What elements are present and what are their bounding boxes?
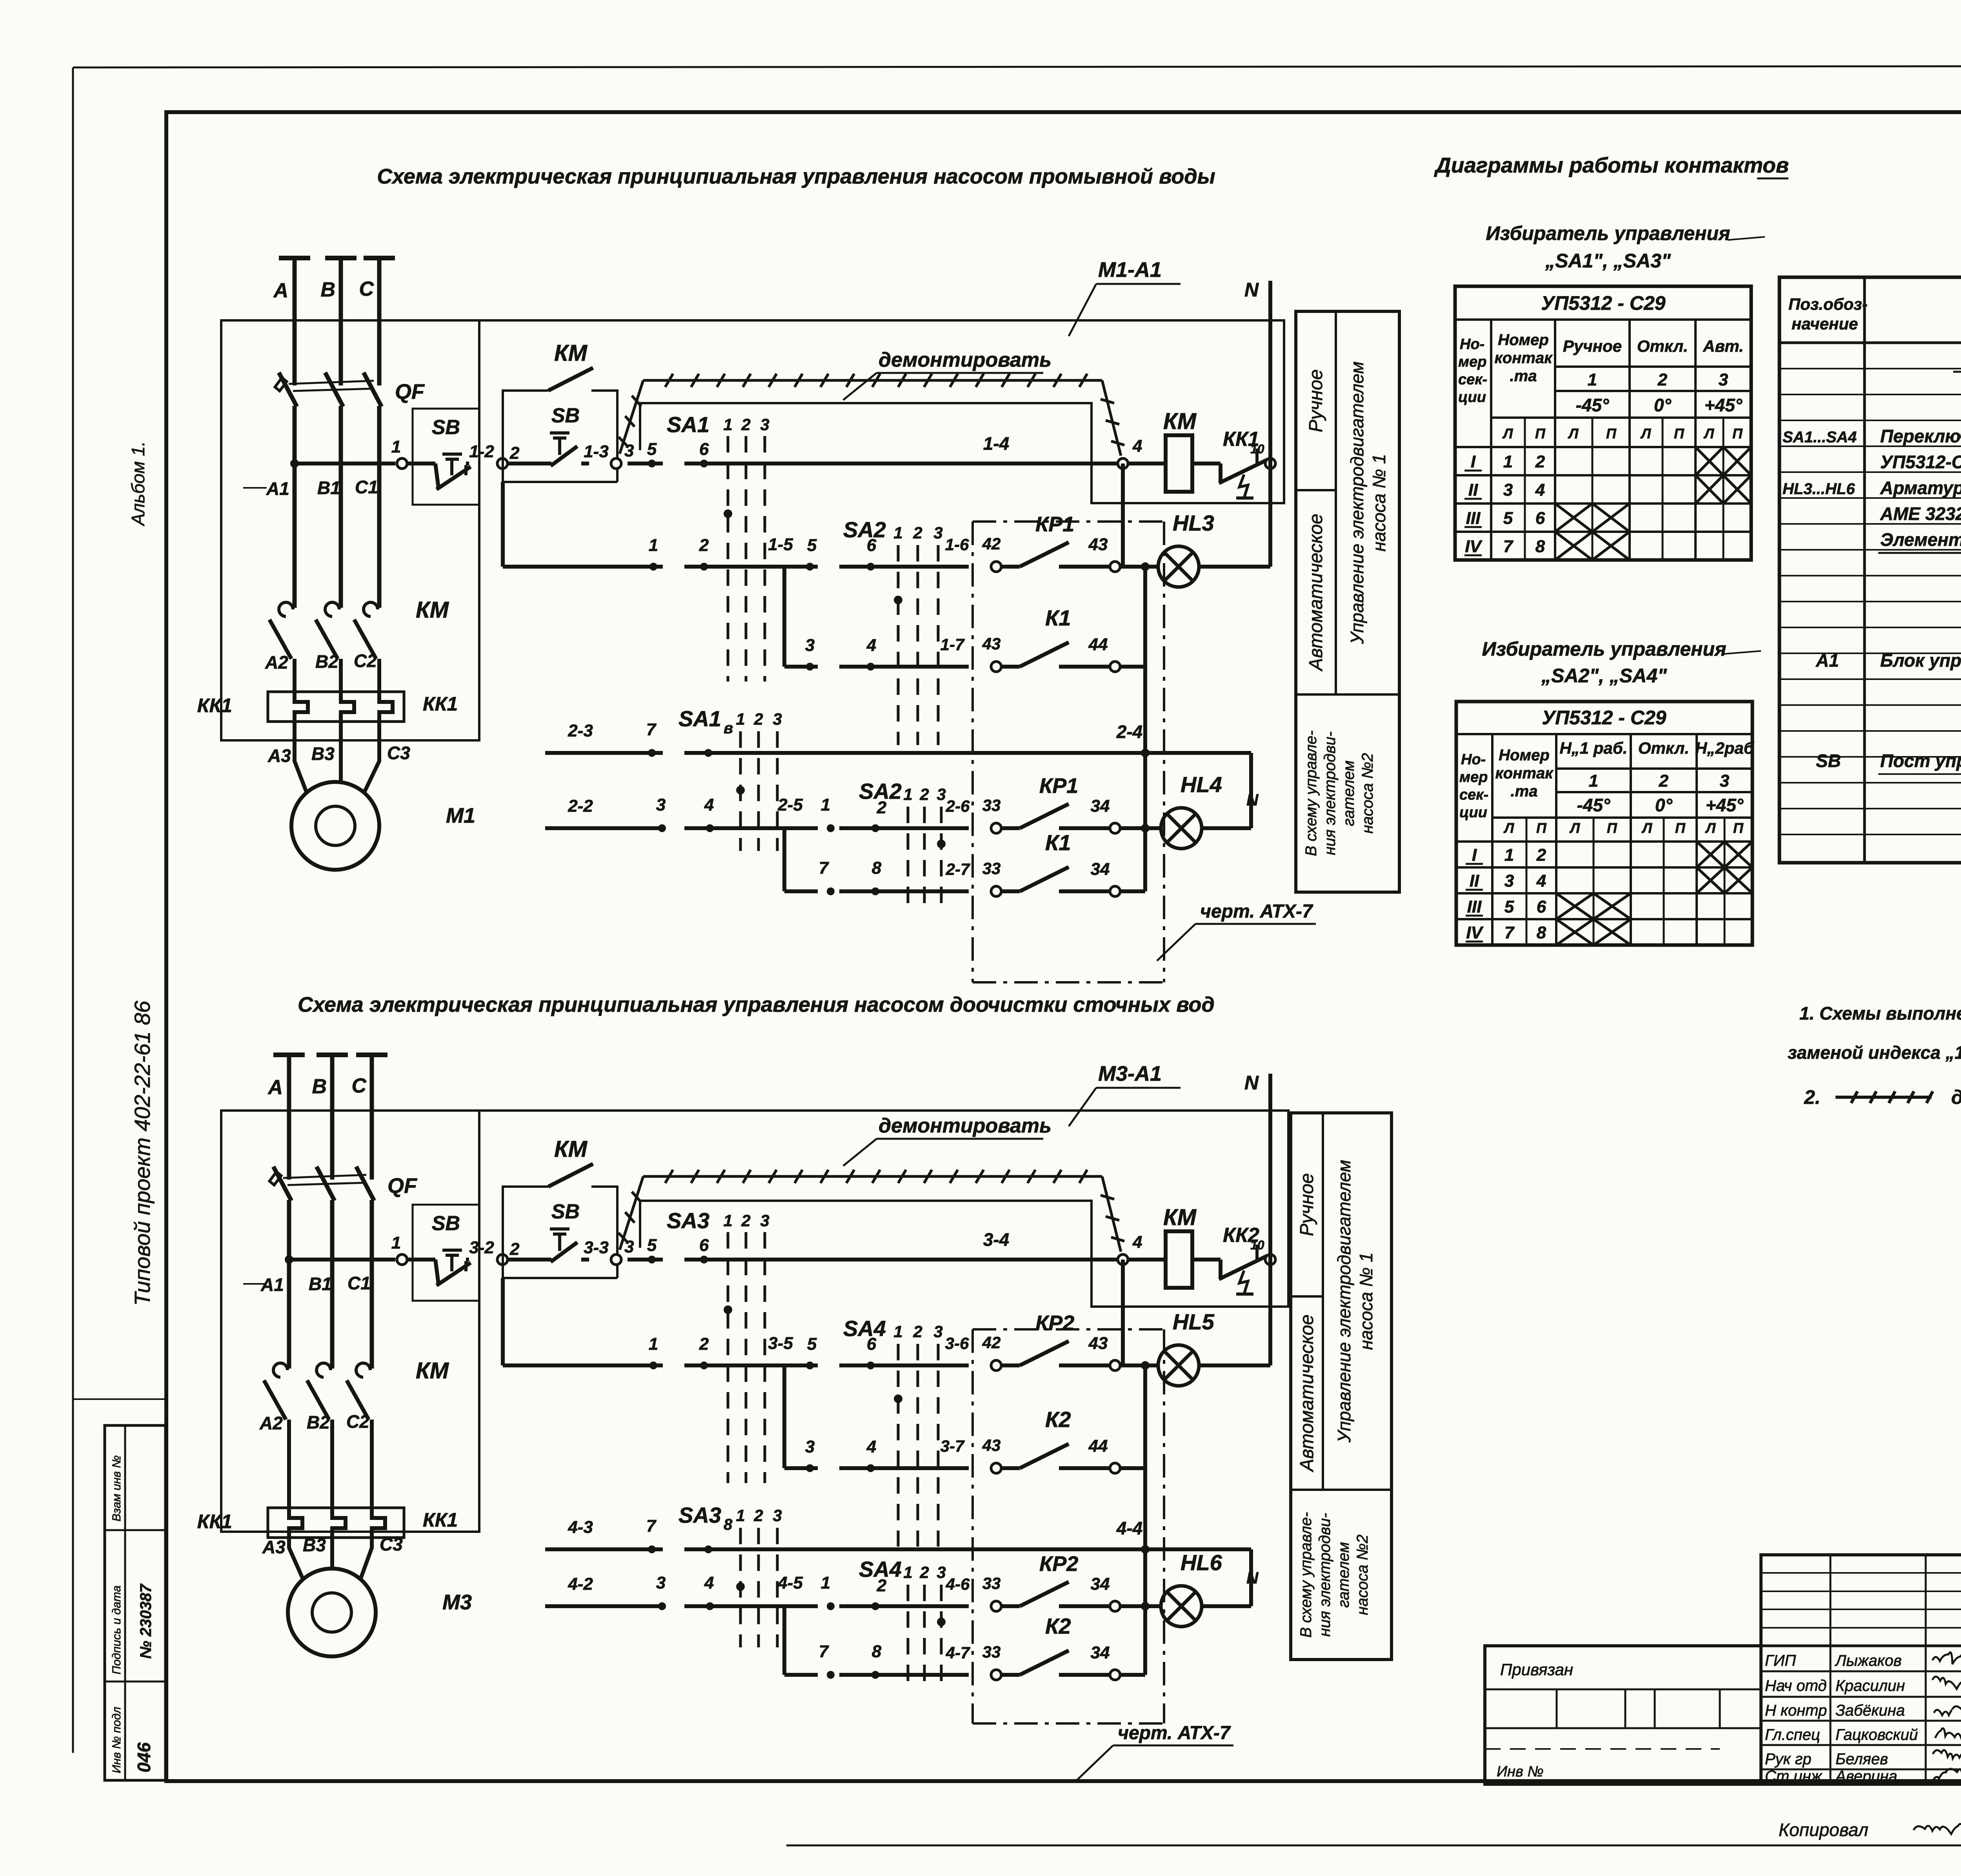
svg-text:3: 3 (1720, 771, 1729, 791)
control circuit row 1 wire (285, 1255, 293, 1264)
svg-text:насоса № 1: насоса № 1 (1356, 1252, 1376, 1350)
svg-text:С2: С2 (354, 651, 377, 671)
svg-text:А: А (267, 1076, 283, 1099)
svg-text:5: 5 (1503, 509, 1513, 528)
svg-text:3: 3 (773, 710, 782, 728)
svg-text:3: 3 (1503, 480, 1513, 500)
thermal relay contact КК1 (1192, 462, 1221, 465)
svg-text:HL3...HL6: HL3...HL6 (1783, 480, 1855, 498)
svg-text:Ручное: Ручное (1563, 337, 1622, 355)
svg-text:SB: SB (432, 416, 460, 439)
svg-text:Красилин: Красилин (1835, 1677, 1905, 1694)
svg-text:К2: К2 (1045, 1407, 1071, 1432)
svg-text:43: 43 (1088, 1334, 1108, 1353)
svg-text:1-5: 1-5 (768, 535, 793, 554)
svg-text:Номер: Номер (1499, 747, 1550, 764)
svg-text:2-5: 2-5 (777, 795, 803, 814)
svg-text:1: 1 (1504, 845, 1514, 865)
svg-text:3: 3 (656, 795, 666, 814)
svg-text:43: 43 (982, 1436, 1001, 1454)
svg-text:М3-А1: М3-А1 (1098, 1062, 1162, 1085)
relay contact К1 (row 3) (991, 662, 1001, 672)
svg-text:„SA1", „SA3": „SA1", „SA3" (1545, 250, 1671, 272)
svg-text:С: С (359, 278, 374, 300)
svg-text:Номер: Номер (1498, 331, 1549, 349)
svg-text:Переключатель универсальный: Переключатель универсальный (1880, 426, 1961, 446)
svg-text:HL3: HL3 (1173, 511, 1214, 535)
svg-text:+45°: +45° (1706, 795, 1744, 815)
svg-text:SB: SB (432, 1212, 460, 1235)
svg-text:Схема электрическая принципиал: Схема электрическая принципиальная управ… (377, 165, 1215, 188)
svg-text:3: 3 (937, 1563, 946, 1582)
svg-text:8: 8 (1535, 537, 1545, 556)
row 5: relay KP contact row with signal lamp (545, 1604, 663, 1608)
svg-text:2: 2 (1657, 370, 1668, 389)
svg-text:34: 34 (1091, 1574, 1110, 1594)
svg-text:8: 8 (872, 1642, 882, 1661)
svg-text:1: 1 (893, 1322, 902, 1341)
svg-text:насоса № 1: насоса № 1 (1369, 454, 1389, 551)
svg-text:Избиратель управления: Избиратель управления (1482, 638, 1726, 660)
svg-text:0°: 0° (1655, 795, 1673, 815)
svg-text:10: 10 (1250, 442, 1264, 456)
control panel enclosure box (221, 1111, 479, 1532)
svg-text:черт. АТХ-7: черт. АТХ-7 (1200, 901, 1313, 922)
svg-text:44: 44 (1088, 635, 1108, 654)
svg-text:4: 4 (704, 1573, 714, 1592)
chart boundary dash-dot box (черт. АТХ-7) (971, 522, 974, 982)
svg-text:8: 8 (1537, 923, 1546, 942)
svg-text:3-6: 3-6 (945, 1334, 969, 1352)
svg-text:6: 6 (1537, 897, 1546, 916)
svg-text:7: 7 (646, 1516, 657, 1536)
svg-text:43: 43 (1088, 535, 1108, 554)
svg-text:мер: мер (1458, 354, 1486, 370)
svg-text:мер: мер (1459, 769, 1488, 785)
svg-text:2: 2 (1535, 452, 1545, 471)
svg-text:М3: М3 (442, 1591, 472, 1614)
svg-text:Беляев: Беляев (1835, 1751, 1888, 1768)
svg-text:КМ: КМ (554, 340, 588, 366)
motor М1 (291, 782, 379, 870)
svg-text:5: 5 (1504, 897, 1514, 916)
svg-text:КР1: КР1 (1039, 774, 1078, 798)
relay contact КР1 (row 2) (991, 562, 1001, 572)
svg-text:Взам инв №: Взам инв № (110, 1455, 123, 1522)
svg-text:2: 2 (753, 1506, 763, 1525)
svg-text:3-3: 3-3 (584, 1238, 609, 1257)
svg-text:КМ: КМ (1163, 409, 1197, 434)
svg-text:II: II (1468, 480, 1478, 500)
svg-text:П: П (1732, 425, 1743, 442)
svg-text:1: 1 (736, 710, 745, 728)
svg-text:1. Схемы выполнены для насосо: 1. Схемы выполнены для насосов № 1 , для… (1799, 1003, 1961, 1023)
svg-text:В: В (312, 1075, 327, 1098)
svg-text:34: 34 (1091, 1643, 1110, 1662)
svg-text:Типовой проект 402-22-61 86: Типовой проект 402-22-61 86 (130, 1000, 155, 1306)
svg-text:4: 4 (704, 795, 714, 814)
svg-text:II: II (1470, 871, 1479, 891)
svg-text:„SA2", „SA4": „SA2", „SA4" (1541, 665, 1667, 687)
right-hand mode/destination label boxes (1291, 1113, 1392, 1660)
svg-text:КМ: КМ (416, 597, 449, 623)
svg-text:П: П (1536, 820, 1547, 836)
svg-text:SA1: SA1 (667, 412, 709, 437)
svg-text:1-3: 1-3 (584, 442, 609, 461)
svg-text:0°: 0° (1654, 395, 1672, 415)
svg-text:Н контр: Н контр (1765, 1702, 1827, 1719)
svg-text:Авт.: Авт. (1703, 337, 1744, 355)
svg-text:В1: В1 (317, 478, 340, 498)
row 4 wire (to pump 2 control) (545, 751, 663, 755)
svg-text:5: 5 (647, 1236, 657, 1255)
signature rows (1761, 1671, 1961, 1672)
svg-text:7: 7 (819, 1642, 830, 1661)
svg-text:3-5: 3-5 (768, 1334, 793, 1353)
svg-text:контак: контак (1495, 765, 1554, 782)
svg-text:В: В (320, 278, 335, 301)
svg-text:В2: В2 (307, 1412, 330, 1432)
terminal circle 1 (397, 458, 407, 469)
svg-text:С: С (351, 1074, 367, 1097)
svg-text:N: N (1244, 1072, 1259, 1094)
svg-text:ГИП: ГИП (1765, 1652, 1796, 1669)
svg-text:2: 2 (741, 1211, 750, 1230)
svg-text:1: 1 (1503, 452, 1513, 471)
thermal relay contact КК2 (1192, 1258, 1221, 1262)
svg-text:SA1...SA4: SA1...SA4 (1783, 429, 1857, 446)
terminal circle 1 (397, 1254, 407, 1265)
svg-text:43: 43 (982, 634, 1001, 653)
svg-text:В2: В2 (315, 651, 338, 672)
svg-text:7: 7 (819, 858, 830, 878)
row 6: relay K contact row (784, 1673, 818, 1677)
svg-text:1: 1 (736, 1506, 745, 1525)
svg-text:2: 2 (753, 710, 763, 728)
svg-text:HL6: HL6 (1181, 1550, 1222, 1575)
svg-text:Но-: Но- (1460, 336, 1484, 353)
svg-text:В1: В1 (309, 1274, 332, 1294)
svg-text:33: 33 (982, 1643, 1001, 1661)
svg-text:2: 2 (919, 1563, 929, 1582)
svg-text:Ручное: Ручное (1297, 1173, 1317, 1236)
thermal relay KK1 heaters (268, 1508, 404, 1538)
svg-text:Элементы управления электродви: Элементы управления электродвигателями (1880, 529, 1961, 550)
svg-text:3: 3 (805, 636, 815, 655)
terminal circle 4 (1118, 1254, 1128, 1265)
row 6: relay K contact row (784, 889, 818, 893)
svg-text:3: 3 (760, 415, 769, 434)
svg-text:4-2: 4-2 (568, 1574, 593, 1594)
terminal circle 2 (497, 1254, 508, 1265)
svg-text:КР1: КР1 (1035, 513, 1074, 536)
svg-text:Автоматическое: Автоматическое (1306, 514, 1326, 672)
svg-text:SA1: SA1 (679, 706, 721, 731)
svg-text:4-6: 4-6 (946, 1575, 970, 1593)
svg-text:Ручное: Ручное (1306, 369, 1326, 433)
svg-text:-45°: -45° (1577, 795, 1610, 815)
relay contact К2 (row 3) (991, 1463, 1001, 1473)
switch diagram table SA2 (1456, 702, 1752, 945)
motor М3 (288, 1569, 376, 1656)
svg-text:1-4: 1-4 (983, 433, 1009, 454)
svg-text:контак: контак (1495, 349, 1553, 367)
svg-text:Л: Л (1703, 425, 1715, 442)
svg-text:1: 1 (649, 536, 658, 555)
svg-text:SA2: SA2 (859, 779, 902, 803)
contactor coil KM (1128, 1258, 1166, 1262)
svg-text:А3: А3 (262, 1537, 286, 1557)
svg-text:4: 4 (866, 1437, 876, 1456)
row 5: relay KP contact row with signal lamp (545, 826, 663, 830)
svg-text:начение: начение (1792, 314, 1858, 333)
svg-text:34: 34 (1091, 796, 1110, 816)
svg-text:3-4: 3-4 (983, 1229, 1009, 1250)
svg-text:046: 046 (134, 1742, 154, 1772)
svg-text:В3: В3 (311, 743, 335, 764)
svg-text:44: 44 (1088, 1436, 1108, 1456)
svg-text:В схему управле-: В схему управле- (1302, 731, 1320, 856)
svg-text:1: 1 (723, 415, 732, 434)
svg-text:3: 3 (760, 1211, 769, 1230)
row 4 wire (to pump 2 control) (545, 1547, 663, 1551)
svg-text:42: 42 (982, 534, 1001, 553)
svg-text:IV: IV (1466, 923, 1484, 942)
svg-text:УП5312 - С29: УП5312 - С29 (1541, 292, 1665, 314)
svg-text:Н„1 раб.: Н„1 раб. (1559, 739, 1627, 757)
terminal circle 10 on N bus (1265, 458, 1275, 469)
svg-text:Копировал: Копировал (1779, 1820, 1868, 1840)
svg-text:IV: IV (1465, 537, 1483, 556)
svg-text:1: 1 (649, 1334, 658, 1354)
junction vertical from terminal 4 down to lower rows (1121, 1260, 1125, 1365)
bottom-left GOST margin table (105, 1425, 166, 1780)
parts list table (Перечень элементов) (1779, 277, 1961, 863)
svg-text:10: 10 (1250, 1238, 1264, 1252)
terminal circle 10 on N bus (1265, 1254, 1275, 1265)
svg-text:3-2: 3-2 (469, 1238, 494, 1257)
svg-text:SB: SB (551, 1200, 580, 1223)
svg-text:К1: К1 (1045, 605, 1071, 630)
svg-text:SA2: SA2 (843, 517, 886, 542)
svg-text:КК1: КК1 (197, 1511, 232, 1532)
svg-text:А2: А2 (265, 652, 288, 673)
terminal circle 3 (611, 1254, 621, 1265)
svg-text:2: 2 (919, 785, 929, 803)
svg-text:1: 1 (821, 1573, 830, 1592)
svg-text:черт. АТХ-7: черт. АТХ-7 (1118, 1723, 1231, 1743)
svg-text:А1: А1 (1815, 650, 1839, 671)
switch diagram table SA1 (1455, 286, 1751, 560)
svg-text:ния электродви-: ния электродви- (1316, 1513, 1333, 1637)
svg-text:№ 230387: № 230387 (137, 1583, 155, 1659)
svg-text:В схему управле-: В схему управле- (1297, 1512, 1315, 1638)
svg-text:1: 1 (903, 1563, 912, 1582)
svg-text:ния электродви-: ния электродви- (1321, 731, 1339, 855)
svg-text:33: 33 (982, 1574, 1001, 1592)
svg-text:С3: С3 (380, 1534, 403, 1554)
svg-text:Забёкина: Забёкина (1835, 1702, 1905, 1719)
signal lamp HL3 (1120, 565, 1158, 569)
svg-text:4-3: 4-3 (568, 1518, 593, 1537)
svg-text:2: 2 (913, 1322, 922, 1341)
svg-text:HL4: HL4 (1181, 772, 1222, 797)
auxiliary contact KM with pushbutton SB (start) (503, 391, 548, 482)
svg-text:2-6: 2-6 (946, 797, 970, 815)
svg-text:КР2: КР2 (1039, 1552, 1078, 1576)
svg-text:Альбом 1.: Альбом 1. (128, 441, 148, 527)
svg-text:1: 1 (903, 785, 912, 803)
terminal circle 2 (497, 458, 508, 469)
svg-text:Ст инж: Ст инж (1765, 1768, 1823, 1785)
fold tick mark left margin (73, 1398, 166, 1400)
svg-text:-45°: -45° (1576, 395, 1609, 415)
control row 3: relay K contact row (784, 665, 818, 669)
svg-text:Л: Л (1502, 425, 1513, 442)
terminal circle 4 (1118, 458, 1128, 469)
svg-text:Пост управления кнопочный: Пост управления кнопочный (1880, 751, 1961, 771)
svg-text:.та: .та (1510, 367, 1537, 385)
svg-text:33: 33 (982, 859, 1001, 878)
thermal relay KK1 heaters (268, 692, 404, 722)
svg-text:4-4: 4-4 (1116, 1518, 1142, 1538)
svg-text:.та: .та (1511, 783, 1538, 800)
svg-text:2: 2 (699, 536, 709, 555)
svg-text:П: П (1674, 425, 1684, 442)
svg-text:Подпись и дата: Подпись и дата (110, 1585, 123, 1674)
svg-text:III: III (1467, 897, 1482, 916)
svg-text:QF: QF (395, 380, 425, 404)
svg-text:QF: QF (387, 1174, 418, 1198)
svg-text:Лыжаков: Лыжаков (1834, 1652, 1902, 1669)
svg-text:I: I (1471, 452, 1476, 471)
svg-text:КК1: КК1 (423, 693, 458, 715)
svg-text:К1: К1 (1045, 830, 1071, 855)
svg-text:4-5: 4-5 (777, 1573, 803, 1592)
svg-text:сек-: сек- (1458, 371, 1487, 388)
block A1 outline (M1-A1) (479, 320, 1284, 503)
svg-text:3: 3 (1719, 370, 1728, 389)
svg-text:Аверина: Аверина (1835, 1768, 1897, 1785)
svg-text:С1: С1 (355, 477, 378, 497)
svg-text:Л: Л (1569, 820, 1581, 836)
svg-text:5: 5 (807, 1334, 817, 1354)
svg-text:2.: 2. (1804, 1086, 1821, 1108)
svg-text:N: N (1244, 279, 1259, 301)
svg-text:4: 4 (1536, 871, 1546, 891)
control row 3: relay K contact row (784, 1466, 818, 1470)
svg-text:3: 3 (933, 524, 942, 542)
svg-text:4: 4 (1132, 436, 1142, 456)
svg-text:Откл.: Откл. (1638, 739, 1689, 757)
svg-text:демонтировать: демонтировать (879, 1114, 1051, 1137)
svg-text:III: III (1466, 509, 1481, 528)
svg-text:6: 6 (699, 440, 709, 459)
svg-text:2: 2 (699, 1334, 709, 1354)
svg-text:I: I (1472, 845, 1477, 865)
svg-text:Л: Л (1640, 425, 1652, 442)
svg-text:Привязан: Привязан (1500, 1660, 1573, 1679)
three-phase supply lines A B C (279, 256, 310, 260)
svg-text:С1: С1 (347, 1273, 371, 1293)
neutral bus N (1268, 1074, 1272, 1365)
svg-text:заменой индекса „1 ” и „3 ”: заменой индекса „1 ” и „3 ” в маркировке… (1788, 1042, 1961, 1063)
svg-text:Диаграммы работы контактов: Диаграммы работы контактов (1434, 153, 1789, 177)
svg-text:Н„2раб: Н„2раб (1695, 739, 1754, 757)
right-hand mode/destination label boxes (1296, 311, 1399, 892)
svg-text:Нач отд: Нач отд (1765, 1677, 1827, 1694)
svg-text:С3: С3 (387, 743, 410, 763)
junction vertical from terminal 4 down to lower rows (1121, 464, 1125, 567)
svg-text:Автоматическое: Автоматическое (1297, 1314, 1317, 1472)
svg-text:7: 7 (1504, 923, 1515, 942)
svg-text:3: 3 (773, 1506, 782, 1525)
svg-text:42: 42 (982, 1333, 1001, 1352)
svg-text:Инв №: Инв № (1497, 1763, 1544, 1780)
control panel enclosure box (221, 320, 479, 740)
svg-text:3: 3 (937, 785, 946, 803)
svg-text:Но-: Но- (1461, 751, 1486, 768)
svg-text:КМ: КМ (1163, 1205, 1197, 1230)
svg-text:3: 3 (656, 1573, 666, 1592)
svg-text:насоса №2: насоса №2 (1354, 1534, 1371, 1615)
svg-text:7: 7 (1503, 537, 1514, 556)
svg-text:2-7: 2-7 (946, 860, 970, 878)
svg-text:8: 8 (724, 1516, 733, 1533)
circuit breaker QF (273, 1167, 291, 1201)
svg-text:1: 1 (391, 437, 401, 456)
svg-text:1: 1 (723, 1211, 732, 1230)
svg-text:в: в (724, 720, 733, 737)
svg-text:SB: SB (551, 404, 580, 427)
svg-text:2: 2 (509, 444, 520, 463)
svg-text:насоса №2: насоса №2 (1359, 753, 1376, 833)
svg-text:1: 1 (1589, 771, 1598, 791)
svg-text:УП5312 - С29: УП5312 - С29 (1542, 707, 1666, 729)
svg-text:Поз.обоз-: Поз.обоз- (1788, 295, 1868, 313)
svg-text:1: 1 (391, 1233, 401, 1252)
control row 2: selector/relay KP row with signal lamp (501, 1278, 505, 1365)
contactor coil KM (1128, 462, 1166, 465)
svg-text:АМЕ 32322 1У2 220В,50Гц ТУ16: АМЕ 32322 1У2 220В,50Гц ТУ16-535.582-76 (1880, 504, 1961, 524)
svg-text:Избиратель управления: Избиратель управления (1486, 222, 1730, 244)
svg-text:4: 4 (1132, 1232, 1142, 1252)
svg-text:П: П (1535, 425, 1546, 442)
svg-text:3-7: 3-7 (940, 1437, 965, 1455)
svg-text:Л: Л (1503, 820, 1515, 836)
relay contact КР2 (row 2) (991, 1360, 1001, 1371)
block A1 outline (M1-A1) (479, 1111, 1288, 1307)
svg-text:1-7: 1-7 (940, 635, 965, 654)
neutral bus N (1268, 281, 1272, 567)
control row 2: selector/relay KP row with signal lamp (501, 482, 505, 567)
svg-text:6: 6 (1535, 509, 1545, 528)
svg-text:сек-: сек- (1459, 787, 1488, 803)
svg-text:1: 1 (1588, 370, 1597, 389)
signal lamp HL5 (1120, 1363, 1158, 1367)
svg-text:3: 3 (933, 1322, 942, 1341)
svg-text:SA4: SA4 (843, 1316, 886, 1341)
svg-text:6: 6 (699, 1236, 709, 1255)
svg-text:2-3: 2-3 (568, 721, 593, 740)
svg-text:КР2: КР2 (1035, 1311, 1074, 1335)
svg-text:2: 2 (1659, 771, 1669, 791)
svg-text:+45°: +45° (1705, 395, 1743, 415)
svg-text:1: 1 (893, 524, 902, 542)
svg-text:SA4: SA4 (859, 1557, 902, 1582)
svg-text:Откл.: Откл. (1637, 337, 1688, 355)
svg-text:HL5: HL5 (1173, 1309, 1215, 1334)
